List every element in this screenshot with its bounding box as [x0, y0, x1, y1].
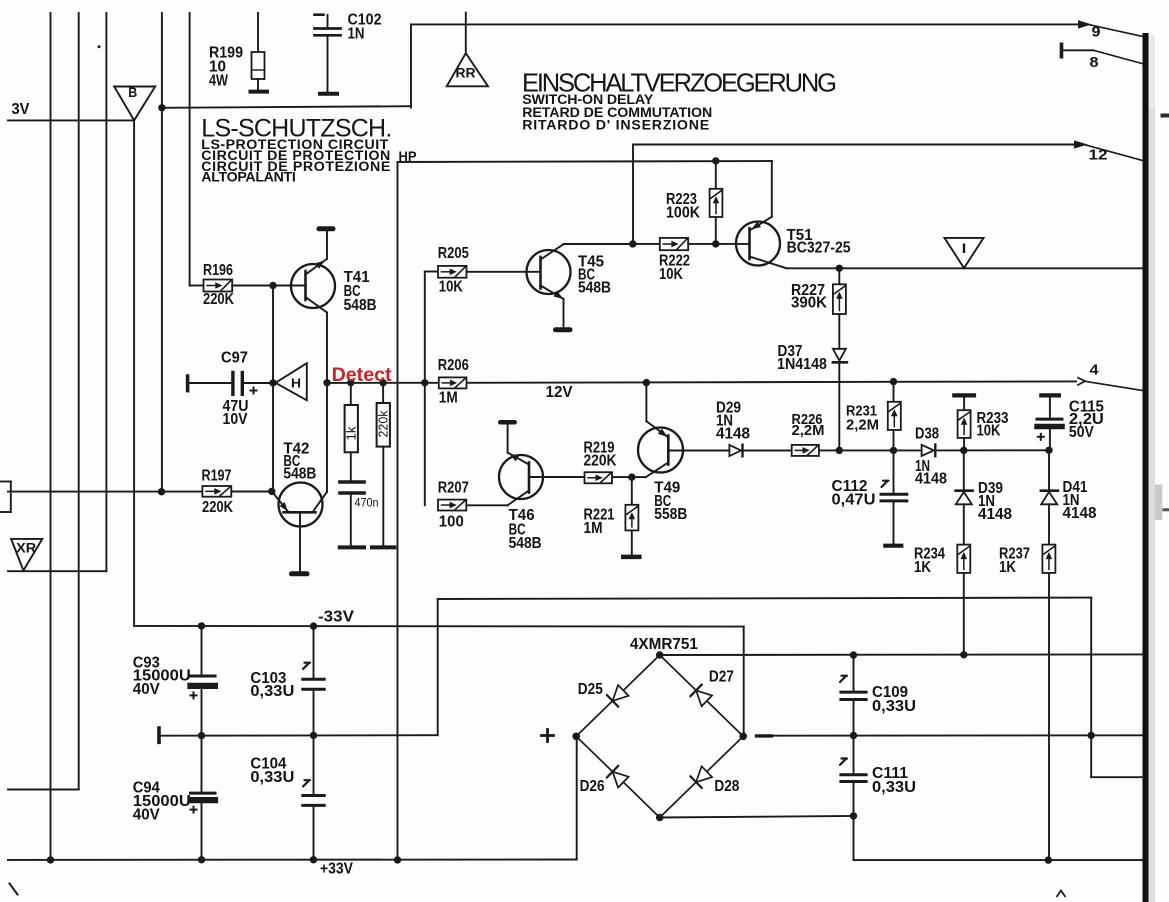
svg-text:0,33U: 0,33U [250, 769, 294, 786]
svg-text:R207: R207 [438, 479, 469, 496]
svg-text:D26: D26 [580, 778, 605, 795]
svg-text:100K: 100K [666, 204, 700, 221]
svg-text:8: 8 [1090, 54, 1099, 71]
svg-text:4148: 4148 [978, 506, 1012, 523]
svg-text:XR: XR [16, 540, 36, 555]
svg-text:4XMR751: 4XMR751 [630, 636, 698, 653]
svg-text:RR: RR [456, 65, 476, 80]
svg-text:10K: 10K [439, 279, 463, 296]
svg-text:12V: 12V [546, 384, 573, 401]
svg-text:50V: 50V [1069, 424, 1094, 441]
svg-text:3V: 3V [12, 101, 30, 118]
svg-text:ALTOPALANTI: ALTOPALANTI [201, 170, 295, 186]
svg-text:548B: 548B [578, 279, 611, 296]
svg-text:40V: 40V [133, 806, 160, 823]
svg-text:1M: 1M [584, 520, 603, 537]
svg-text:558B: 558B [654, 506, 687, 523]
svg-text:220K: 220K [202, 499, 233, 516]
svg-text:R205: R205 [438, 245, 469, 262]
svg-text:B: B [128, 85, 137, 100]
svg-text:R196: R196 [203, 262, 233, 279]
svg-text:1K: 1K [999, 559, 1016, 576]
svg-text:390K: 390K [791, 294, 827, 311]
svg-text:HP: HP [399, 148, 417, 164]
svg-text:RITARDO D' INSERZIONE: RITARDO D' INSERZIONE [522, 117, 709, 133]
svg-text:2,2M: 2,2M [846, 416, 879, 433]
svg-text:C97: C97 [221, 349, 248, 366]
svg-text:BC327-25: BC327-25 [787, 240, 851, 257]
svg-text:4148: 4148 [915, 471, 947, 488]
svg-text:D27: D27 [709, 668, 734, 685]
svg-text:1k: 1k [344, 426, 358, 441]
svg-text:548B: 548B [509, 535, 542, 552]
svg-text:4148: 4148 [716, 425, 750, 442]
svg-text:D38: D38 [915, 426, 939, 443]
svg-text:40V: 40V [133, 681, 160, 698]
svg-text:4148: 4148 [1063, 505, 1097, 522]
svg-text:D25: D25 [578, 681, 603, 698]
svg-text:548B: 548B [344, 297, 377, 314]
svg-text:4W: 4W [209, 73, 229, 90]
svg-text:0,33U: 0,33U [250, 683, 294, 700]
svg-text:R206: R206 [438, 357, 469, 374]
svg-text:100: 100 [439, 513, 464, 530]
svg-text:10K: 10K [659, 266, 683, 283]
svg-text:0,33U: 0,33U [872, 779, 916, 796]
svg-text:470n: 470n [355, 496, 379, 510]
svg-text:220k: 220k [377, 410, 391, 438]
svg-text:-33V: -33V [318, 609, 354, 626]
svg-text:+33V: +33V [320, 861, 353, 878]
svg-text:1K: 1K [914, 559, 931, 576]
svg-text:1N: 1N [348, 26, 365, 43]
svg-text:1N4148: 1N4148 [777, 356, 827, 373]
svg-text:10K: 10K [977, 423, 1001, 440]
svg-text:H: H [291, 377, 301, 391]
svg-text:R197: R197 [202, 467, 232, 484]
svg-text:10V: 10V [223, 411, 248, 428]
svg-text:12: 12 [1089, 147, 1108, 164]
svg-text:1M: 1M [439, 390, 458, 407]
svg-text:D28: D28 [714, 778, 739, 795]
svg-text:0,33U: 0,33U [872, 698, 916, 715]
svg-text:220K: 220K [584, 452, 617, 469]
svg-text:220K: 220K [203, 291, 234, 308]
svg-text:4: 4 [1090, 361, 1100, 378]
svg-text:9: 9 [1092, 23, 1101, 40]
svg-text:548B: 548B [283, 465, 316, 482]
svg-text:Detect: Detect [332, 364, 393, 386]
svg-text:I: I [962, 240, 967, 256]
svg-text:0,47U: 0,47U [832, 492, 876, 509]
svg-text:2,2M: 2,2M [792, 422, 825, 439]
